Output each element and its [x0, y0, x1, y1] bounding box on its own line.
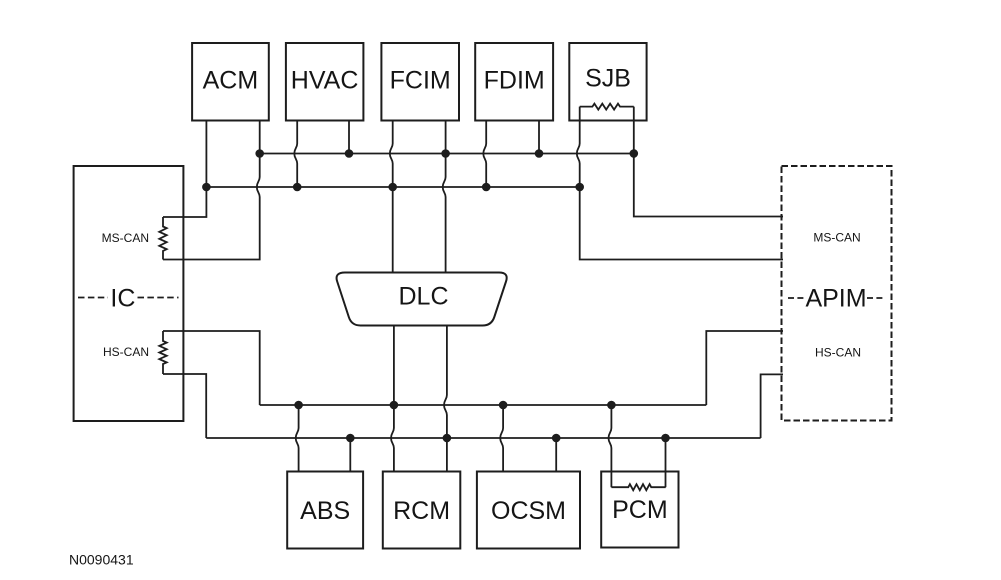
wire DLC bottom-right, hop bus3, dot bus4, to RCM — [444, 326, 447, 472]
svg-text:FDIM: FDIM — [484, 67, 545, 95]
svg-text:RCM: RCM — [393, 497, 450, 525]
MS-CAN bus line 2 (lower) — [206, 186, 579, 188]
wire PCM left, dot bus3, hop bus4, into PCM resistor — [609, 405, 612, 487]
module box ABS — [287, 472, 363, 549]
wire PCM right, dot bus4, into PCM resistor — [665, 438, 667, 487]
wire ABS right, dot bus4 — [349, 438, 351, 472]
module box FCIM — [381, 43, 459, 121]
svg-text:ABS: ABS — [300, 497, 350, 525]
svg-text:PCM: PCM — [612, 496, 668, 524]
wire SJB left, hop bus1, dot bus2, down and right to APIM MS-CAN — [577, 107, 783, 260]
HS-CAN bus line 3 (upper) — [260, 404, 707, 406]
svg-text:SJB: SJB — [585, 65, 631, 93]
wire FCIM right, dot bus1, hop bus2, to DLC top — [443, 121, 446, 273]
svg-text:N0090431: N0090431 — [69, 552, 134, 568]
resistor HS-CAN (IC termination) — [159, 331, 166, 374]
wire FDIM left, hop bus1, to bus2 — [483, 121, 486, 188]
HS-CAN bus line 4 (lower) — [206, 437, 760, 439]
module box SJB — [569, 43, 646, 121]
wire ACM right to bus1, hop bus2, to IC resistor bottom — [163, 121, 260, 260]
resistor PCM (termination) — [611, 484, 665, 490]
svg-text:OCSM: OCSM — [491, 497, 566, 525]
wire FDIM right to bus1 — [538, 121, 540, 154]
wire FCIM left, hop bus1, dot bus2, to DLC top — [390, 121, 393, 273]
module box RCM — [383, 472, 461, 549]
wire OCSM right, dot bus4 — [555, 438, 557, 472]
module box FDIM — [475, 43, 553, 121]
wire SJB right, dot bus1, down and right to APIM MS-CAN — [634, 107, 783, 217]
svg-text:ACM: ACM — [203, 67, 259, 95]
module box ACM — [192, 43, 269, 121]
svg-text:DLC: DLC — [398, 283, 448, 311]
DLC connector (trapezoid) — [337, 273, 507, 326]
module box APIM (dashed) — [782, 166, 892, 421]
wire HVAC right to bus1 — [348, 121, 350, 154]
wire HVAC left, hop bus1, to bus2 — [294, 121, 297, 188]
junction dots bus2 — [202, 183, 584, 192]
resistor SJB (termination) — [580, 104, 634, 110]
svg-text:FCIM: FCIM — [390, 67, 451, 95]
resistor MS-CAN (IC termination) — [159, 217, 166, 260]
module box PCM — [601, 472, 678, 548]
svg-text:HS-CAN: HS-CAN — [103, 345, 149, 359]
svg-text:APIM: APIM — [805, 285, 866, 313]
module box HVAC — [286, 43, 364, 121]
svg-text:MS-CAN: MS-CAN — [813, 231, 860, 245]
svg-text:MS-CAN: MS-CAN — [102, 231, 149, 245]
junction dots bus3 — [294, 401, 615, 410]
MS-CAN bus line 1 (upper) — [260, 153, 634, 155]
wire bus3 right riser to APIM HS-CAN — [706, 331, 783, 405]
wire IC HS-CAN resistor top to bus3 — [163, 331, 260, 405]
module box IC — [74, 166, 184, 421]
junction dots bus1 — [255, 149, 638, 158]
module box OCSM — [477, 472, 580, 549]
junction dots bus4 — [346, 434, 670, 443]
wire OCSM left, dot bus3, hop bus4 — [500, 405, 503, 472]
svg-text:HS-CAN: HS-CAN — [815, 346, 861, 360]
wire ABS left, dot bus3, hop bus4 — [296, 405, 299, 472]
wire DLC bottom-left, dot bus3, hop bus4, to RCM — [391, 326, 394, 472]
wire ACM left to bus2 and IC resistor top — [163, 121, 206, 218]
wire IC HS-CAN resistor bottom to bus4 — [163, 374, 206, 438]
svg-text:IC: IC — [110, 285, 135, 313]
svg-text:HVAC: HVAC — [291, 67, 359, 95]
wire bus4 right riser to APIM HS-CAN — [761, 374, 783, 438]
